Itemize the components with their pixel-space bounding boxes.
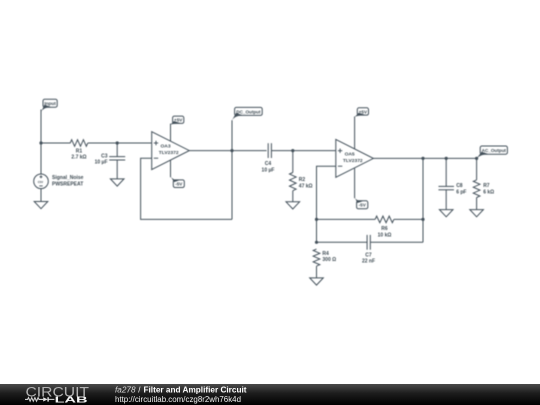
svg-text:-5V: -5V [175,182,183,187]
svg-text:TLV2372: TLV2372 [159,150,179,156]
svg-text:10 µF: 10 µF [95,160,108,166]
svg-text:Signal_Noise: Signal_Noise [52,175,84,181]
svg-text:R6: R6 [381,226,388,232]
svg-text:10 kΩ: 10 kΩ [378,232,392,238]
svg-text:R7: R7 [483,183,490,189]
svg-text:R4: R4 [322,251,329,257]
svg-text:OA5: OA5 [345,152,355,158]
svg-text:R2: R2 [299,177,306,183]
svg-text:AC_Output: AC_Output [482,148,507,153]
svg-text:LAB: LAB [55,395,88,404]
svg-text:47 kΩ: 47 kΩ [299,183,313,189]
svg-text:DC_Output: DC_Output [236,109,261,114]
svg-text:+5V: +5V [174,118,183,123]
svg-text:6 pF: 6 pF [456,189,466,195]
svg-text:300 Ω: 300 Ω [322,257,336,263]
svg-text:TLV2372: TLV2372 [343,158,363,164]
svg-text:OA3: OA3 [161,144,171,150]
svg-text:2.7 kΩ: 2.7 kΩ [71,155,86,161]
svg-text:PWSREPEAT: PWSREPEAT [52,181,83,187]
svg-text:10 µF: 10 µF [262,167,275,173]
svg-text:fa278: fa278 [115,385,136,394]
svg-text:6 kΩ: 6 kΩ [483,189,494,195]
svg-text:22 nF: 22 nF [362,259,375,265]
svg-text:Input: Input [44,101,56,106]
svg-text:C7: C7 [365,253,372,259]
svg-text:-5V: -5V [359,203,367,208]
svg-text:C4: C4 [265,161,272,167]
svg-text:Filter and Amplifier Circuit: Filter and Amplifier Circuit [144,385,247,394]
svg-text:http://circuitlab.com/czg8r2wh: http://circuitlab.com/czg8r2wh76k4d [115,395,241,404]
svg-text:/: / [138,385,141,394]
svg-text:+5V: +5V [359,109,368,114]
svg-text:CSV: CSV [38,180,44,184]
svg-text:C8: C8 [456,183,463,189]
